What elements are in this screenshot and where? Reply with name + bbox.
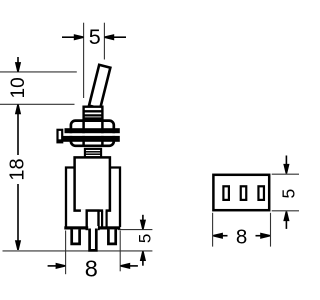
svg-text:18: 18 [7,158,29,180]
svg-text:8: 8 [236,225,247,248]
svg-text:5: 5 [89,25,101,49]
svg-text:8: 8 [85,255,98,281]
svg-text:5: 5 [278,189,298,199]
svg-text:5: 5 [136,234,155,243]
svg-text:10: 10 [8,77,29,98]
